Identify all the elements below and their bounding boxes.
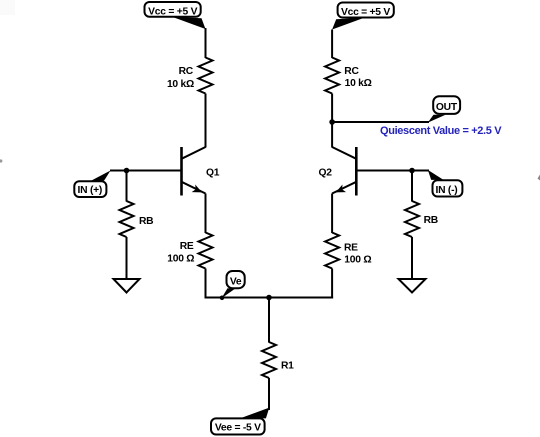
resistor RC left zigzag: [199, 58, 213, 94]
power label Vcc right "Vcc = +5 V": [332, 3, 394, 30]
wire Q1 base: [110, 170, 182, 172]
power label Vee "Vee = -5 V": [211, 408, 269, 435]
svg-text:IN (-): IN (-): [436, 185, 458, 196]
wire Q2 base: [356, 170, 429, 172]
wire RB left to ground: [126, 237, 128, 279]
wire Q2 emitter to RE right: [331, 194, 333, 234]
wire OUT: [332, 121, 429, 123]
resistor RB left zigzag: [120, 201, 134, 237]
svg-text:RE: RE: [180, 241, 194, 252]
svg-text:Quiescent Value = +2.5 V: Quiescent Value = +2.5 V: [380, 125, 502, 137]
svg-text:RB: RB: [424, 215, 438, 226]
svg-text:RB: RB: [139, 216, 153, 227]
svg-text:IN (+): IN (+): [78, 185, 103, 196]
svg-text:10 kΩ: 10 kΩ: [345, 78, 372, 89]
svg-text:OUT: OUT: [436, 102, 458, 113]
output label OUT: [428, 96, 460, 122]
wire Vcc left to RC left: [205, 28, 207, 58]
svg-text:RC: RC: [344, 66, 359, 77]
svg-text:Vee = -5 V: Vee = -5 V: [215, 423, 261, 434]
wire RB right to ground: [411, 237, 413, 279]
power label Vcc left "Vcc = +5 V": [145, 2, 206, 29]
node junction dot collector right: [329, 119, 335, 125]
resistor RC right zigzag: [325, 58, 339, 94]
ground right: [399, 279, 426, 293]
svg-text:Q1: Q1: [206, 167, 220, 178]
svg-text:Vcc = +5 V: Vcc = +5 V: [341, 7, 390, 18]
node label Ve: [220, 271, 245, 300]
transistor Q2 (NPN, mirrored): [332, 147, 356, 196]
svg-text:100 Ω: 100 Ω: [344, 255, 371, 266]
svg-text:10 kΩ: 10 kΩ: [167, 79, 194, 90]
stray mark right edge: [538, 175, 540, 181]
svg-text:100 Ω: 100 Ω: [167, 253, 194, 264]
input label IN (-): [428, 170, 463, 197]
resistor RE left zigzag: [199, 233, 213, 269]
svg-text:Vcc = +5 V: Vcc = +5 V: [148, 7, 197, 18]
wire RC right to Q2 collector: [331, 94, 333, 148]
node junction dot right base: [409, 168, 415, 174]
wire right node to RB right: [411, 171, 413, 202]
wire R1 to Vee: [268, 378, 270, 410]
wire RE left to emitter bus: [205, 269, 207, 299]
wire RE right to emitter bus: [331, 269, 333, 299]
svg-text:RE: RE: [344, 243, 358, 254]
wire Q1 emitter to RE left: [205, 194, 207, 234]
svg-text:RC: RC: [179, 66, 194, 77]
node junction dot left base: [124, 168, 130, 174]
svg-text:Q2: Q2: [319, 167, 333, 178]
wire tail to R1: [268, 298, 270, 343]
transistor Q1 (NPN): [182, 147, 206, 196]
wire RC left to Q1 collector: [205, 94, 207, 148]
resistor RE right zigzag: [325, 233, 339, 269]
svg-text:Ve: Ve: [230, 276, 242, 287]
input label IN (+): [74, 171, 110, 198]
svg-text:R1: R1: [281, 361, 294, 372]
resistor RB right zigzag: [405, 201, 419, 237]
wire emitter bus: [205, 297, 334, 299]
resistor R1 zigzag: [262, 342, 276, 378]
stray mark left edge: [0, 159, 2, 162]
wire left node to RB left: [126, 171, 128, 202]
node junction dot tail: [266, 295, 272, 301]
wire Vcc right to RC right: [331, 30, 333, 59]
ground left: [114, 279, 140, 293]
